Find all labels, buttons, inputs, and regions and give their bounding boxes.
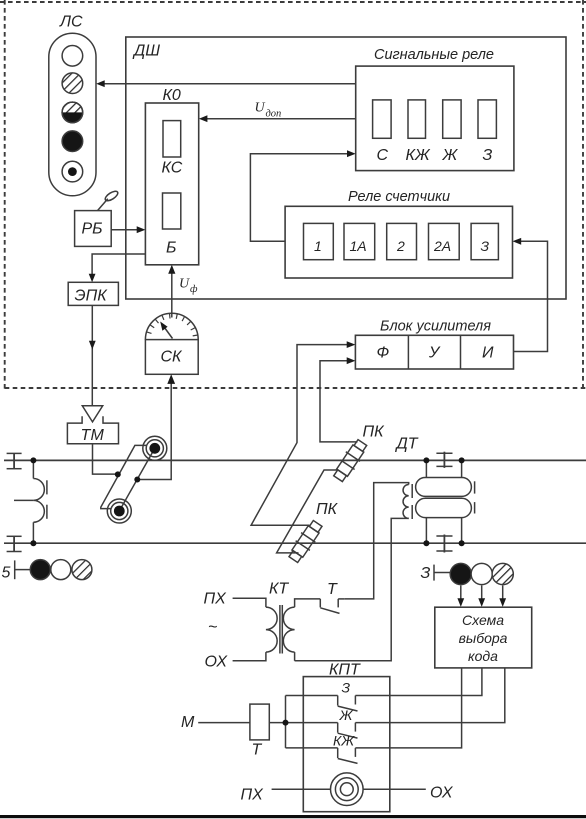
lamp KPT [331, 773, 364, 806]
box EPK [68, 282, 118, 305]
wire code selector to Zh contact [355, 668, 504, 723]
svg-text:ЭПК: ЭПК [75, 288, 109, 305]
LS lamp 1 white [62, 46, 83, 67]
contact Zh [338, 723, 358, 739]
RB handle [98, 199, 108, 211]
svg-text:~: ~ [208, 619, 217, 636]
amplifier divider 1 [407, 335, 409, 369]
svg-text:РБ: РБ [82, 221, 103, 238]
dashed locomotive boundary bottom [5, 387, 586, 389]
svg-text:ПК: ПК [316, 501, 339, 518]
signal Z hatched lamp [492, 563, 513, 584]
wheelset axle [101, 445, 155, 511]
wire upper PK coil to lower PK coil [277, 470, 337, 553]
svg-text:СК: СК [161, 349, 184, 366]
node DT rail2 left [423, 540, 429, 546]
relay KZh [408, 100, 426, 138]
arrow lamp2 to code selector [478, 586, 485, 607]
svg-text:2: 2 [396, 238, 405, 254]
box counter relays [285, 206, 512, 278]
transformer DT main winding lower [416, 498, 472, 517]
label Skhema vybora koda [459, 612, 508, 664]
LS lamp 4 black [62, 131, 83, 152]
node rail2 left [30, 540, 36, 546]
insulated joint rail2 left [7, 536, 22, 551]
svg-text:ТМ: ТМ [81, 427, 105, 444]
svg-text:кода: кода [468, 648, 498, 664]
wheel lower [107, 499, 131, 523]
svg-text:К0: К0 [163, 87, 181, 104]
svg-text:Т: Т [252, 742, 263, 759]
wire axle to SK [137, 383, 171, 480]
svg-text:Ж: Ж [339, 707, 354, 723]
gauge SK [145, 313, 198, 374]
svg-text:ДШ: ДШ [132, 43, 160, 60]
box KPT [303, 677, 390, 812]
contact T [320, 599, 345, 614]
svg-text:ОХ: ОХ [430, 785, 454, 802]
insulated joint rail1 at DT [436, 452, 452, 468]
SK needle [163, 326, 173, 339]
box TM [67, 416, 118, 444]
KT core [279, 605, 281, 654]
DT core dashes [412, 481, 474, 519]
DT secondary winding [403, 485, 409, 519]
box KO [145, 103, 198, 265]
svg-text:ОХ: ОХ [205, 654, 229, 671]
node rail1 left [30, 457, 36, 463]
wire KO to EPK [92, 254, 145, 275]
rail 2 [4, 542, 586, 544]
wire counters to signal relays [250, 154, 348, 242]
counter cell 3 [471, 223, 498, 259]
svg-text:КЖ: КЖ [333, 733, 355, 749]
svg-text:Блок усилителя: Блок усилителя [380, 319, 491, 335]
svg-text:ф: ф [190, 284, 198, 295]
svg-text:U: U [255, 101, 266, 116]
svg-text:КПТ: КПТ [329, 662, 361, 679]
box code selector [435, 607, 532, 668]
svg-text:Реле счетчики: Реле счетчики [348, 189, 450, 205]
svg-text:И: И [482, 345, 494, 362]
LS lamp 2 hatched [62, 73, 83, 94]
KPT left riser [285, 696, 287, 748]
KT primary [233, 598, 266, 607]
node DT rail2 right [459, 540, 465, 546]
svg-text:Схема: Схема [462, 612, 504, 628]
svg-text:ДТ: ДТ [395, 436, 419, 453]
svg-text:ПХ: ПХ [204, 591, 228, 608]
box signal relays [356, 66, 514, 171]
svg-text:У: У [428, 345, 441, 362]
wire Udop signal relays to KO [206, 118, 356, 120]
DT stub right bottom [461, 518, 463, 544]
svg-text:доп: доп [266, 109, 282, 120]
svg-text:1: 1 [314, 238, 322, 254]
wire DT secondary bottom to KT [295, 518, 409, 660]
rail 1 [4, 459, 586, 461]
svg-text:2А: 2А [433, 238, 451, 254]
DT stub right top [461, 460, 463, 477]
arrow lamp1 to code selector [457, 586, 464, 607]
svg-text:КЖ: КЖ [406, 147, 431, 164]
counter cell 1 [304, 223, 334, 259]
valve funnel TM [82, 406, 102, 422]
node DT rail1 right [459, 457, 465, 463]
node SK axle [134, 477, 140, 483]
wire RB to KO [111, 229, 138, 231]
wire EPK to TM [91, 305, 93, 405]
coil PK upper [331, 438, 370, 484]
wire lower PK coil to amplifier input 1 [251, 345, 348, 526]
signal Z black lamp [450, 563, 471, 584]
dashed locomotive boundary top [0, 1, 586, 3]
counter cell 2 [387, 223, 417, 259]
insulated joint rail1 left [7, 453, 22, 468]
DT stub left top [425, 460, 427, 477]
wire code selector to KZh contact [355, 668, 461, 748]
LS lamp 5 white with dot [62, 161, 83, 182]
wire DT secondary top to T contact [345, 483, 409, 599]
svg-text:ПК: ПК [363, 424, 386, 441]
svg-text:З: З [342, 680, 351, 696]
svg-text:С: С [377, 147, 389, 164]
wire lamp to OKh [363, 788, 426, 790]
contact Z [286, 696, 358, 712]
KT secondary [295, 599, 321, 607]
relay S [373, 100, 392, 138]
dashed locomotive boundary left [4, 0, 6, 389]
relay Zh [443, 100, 461, 138]
svg-text:U: U [179, 277, 190, 292]
DT stub left bottom [425, 518, 427, 544]
box amplifier [355, 335, 513, 369]
svg-text:З: З [421, 565, 431, 582]
svg-text:Сигнальные реле: Сигнальные реле [374, 47, 494, 63]
arrow lamp3 to code selector [499, 586, 506, 607]
node riser [283, 720, 289, 726]
wheel upper [143, 436, 167, 460]
wire code selector to Z contact [355, 668, 482, 696]
box DSh [126, 37, 566, 299]
counter cell 2A [429, 223, 460, 259]
node DT rail1 left [423, 457, 429, 463]
signal Z white lamp [471, 563, 492, 584]
LS lamp 3 half hatched half black [62, 102, 83, 123]
dashed locomotive boundary right [582, 0, 584, 389]
wire Uf SK to KO [171, 272, 173, 314]
svg-text:Т: Т [327, 581, 338, 598]
svg-text:КТ: КТ [269, 581, 289, 598]
signal 5 white lamp [51, 560, 71, 580]
bottom border bar [0, 815, 586, 818]
relay B [163, 193, 181, 229]
signal 5 mast [15, 560, 31, 579]
contact KZh [286, 748, 358, 764]
svg-text:З: З [483, 147, 493, 164]
svg-text:1А: 1А [350, 238, 367, 254]
svg-text:ЛС: ЛС [59, 14, 83, 31]
transformer KT [233, 598, 321, 661]
counter cell 1A [344, 223, 375, 259]
svg-text:М: М [181, 714, 195, 731]
signal Z mast [434, 565, 450, 581]
wire M to resistor [198, 722, 250, 724]
resistor T [250, 704, 269, 740]
insulated joint rail2 at DT [436, 535, 452, 553]
wire upper PK coil to amplifier input 2 [320, 361, 358, 442]
wire signal relays to LS [103, 83, 356, 85]
svg-text:ПХ: ПХ [241, 787, 265, 804]
signal 5 hatched lamp [72, 560, 92, 580]
relay KS [163, 121, 181, 157]
coil PK lower [286, 519, 325, 565]
signal 5 black lamp [30, 560, 50, 580]
amplifier divider 2 [460, 335, 462, 369]
wire amplifier output to counters [514, 241, 548, 351]
transformer DT main winding upper [416, 478, 472, 497]
svg-text:Ж: Ж [442, 147, 459, 164]
node TM axle [115, 471, 121, 477]
relay Z [478, 100, 496, 138]
wire TM to axle [93, 444, 116, 474]
svg-text:Б: Б [166, 240, 176, 257]
SK ticks [147, 313, 198, 336]
svg-text:5: 5 [2, 565, 11, 582]
svg-text:З: З [481, 238, 490, 254]
lamp head LS housing [49, 33, 96, 196]
left choke transformer winding [14, 460, 47, 543]
wire PKh to lamp [272, 788, 331, 790]
box RB [75, 211, 112, 247]
wire resistor to KPT riser [269, 722, 337, 724]
svg-text:Ф: Ф [377, 345, 390, 362]
svg-text:КС: КС [162, 160, 183, 177]
svg-text:выбора: выбора [459, 630, 508, 646]
